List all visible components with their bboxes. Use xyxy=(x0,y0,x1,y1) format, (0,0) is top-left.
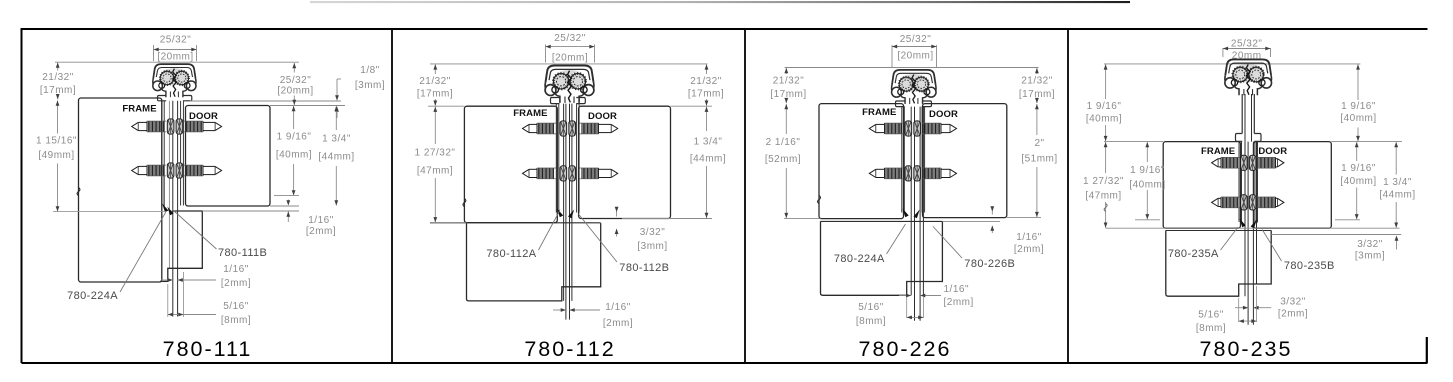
svg-text:DOOR: DOOR xyxy=(189,111,218,122)
P4 block top line xyxy=(1166,230,1271,232)
P4 channel lines xyxy=(1244,142,1246,297)
P4 cap top extension line xyxy=(1104,63,1360,65)
svg-text:2 1/16": 2 1/16" xyxy=(766,137,801,148)
P2 frame leaf xyxy=(555,104,557,213)
svg-text:25/32": 25/32" xyxy=(1231,39,1263,50)
P4 frame plate xyxy=(1163,142,1240,229)
svg-text:[52mm]: [52mm] xyxy=(765,154,801,165)
svg-text:780-235B: 780-235B xyxy=(1284,260,1335,272)
svg-text:3/32": 3/32" xyxy=(1280,297,1306,308)
P1 door bottom extension xyxy=(270,205,299,207)
svg-text:1 27/32": 1 27/32" xyxy=(415,148,456,159)
P3 hinge cap xyxy=(892,70,936,104)
svg-text:1 3/4": 1 3/4" xyxy=(1383,177,1412,188)
svg-text:FRAME: FRAME xyxy=(122,104,156,115)
svg-text:21/32": 21/32" xyxy=(690,76,722,87)
P2 screw row 2 xyxy=(523,166,618,181)
P3 screw row 2 xyxy=(869,166,956,181)
svg-text:780-235A: 780-235A xyxy=(1168,248,1219,260)
svg-text:[2mm]: [2mm] xyxy=(221,278,251,289)
svg-text:[20mm]: [20mm] xyxy=(157,52,193,63)
svg-text:1 9/16": 1 9/16" xyxy=(277,132,312,143)
P4 dim line break mark xyxy=(1104,204,1107,212)
svg-text:1 9/16": 1 9/16" xyxy=(1341,101,1376,112)
P1 hinge cap xyxy=(153,64,196,97)
P4 neck xyxy=(1241,94,1243,134)
svg-text:780-111B: 780-111B xyxy=(218,247,267,259)
P2 lower block xyxy=(467,223,601,301)
svg-text:[2mm]: [2mm] xyxy=(306,226,336,237)
svg-text:[3mm]: [3mm] xyxy=(355,80,385,91)
svg-text:[49mm]: [49mm] xyxy=(38,150,74,161)
svg-text:[44mm]: [44mm] xyxy=(1379,190,1415,201)
P4 hinge cap xyxy=(1225,59,1272,95)
P4 neck ears xyxy=(1236,134,1243,142)
svg-text:3/32": 3/32" xyxy=(640,227,666,238)
svg-text:21/32": 21/32" xyxy=(419,76,451,87)
svg-text:[2mm]: [2mm] xyxy=(1014,244,1044,255)
svg-text:20mm: 20mm xyxy=(1232,51,1262,62)
svg-text:1/16": 1/16" xyxy=(1016,232,1042,243)
P3 leaf end wedges xyxy=(903,209,909,218)
P3 channel lines xyxy=(910,107,912,296)
svg-text:1 9/16": 1 9/16" xyxy=(1341,163,1376,174)
svg-text:[17mm]: [17mm] xyxy=(688,89,724,100)
svg-text:[40mm]: [40mm] xyxy=(276,150,312,161)
svg-text:[40mm]: [40mm] xyxy=(1086,114,1122,125)
svg-text:[44mm]: [44mm] xyxy=(690,154,726,165)
svg-text:[2mm]: [2mm] xyxy=(944,297,974,308)
P4 screw row 2 xyxy=(1212,195,1284,210)
P1 screw row 2 xyxy=(132,163,222,178)
P1 channel lines xyxy=(168,101,170,268)
svg-text:1 9/16": 1 9/16" xyxy=(1130,165,1165,176)
svg-text:25/32": 25/32" xyxy=(280,75,312,86)
svg-text:[40mm]: [40mm] xyxy=(1129,180,1165,191)
svg-text:[17mm]: [17mm] xyxy=(417,89,453,100)
P2 frame edge break mark xyxy=(463,199,466,207)
P1 cap top extension line xyxy=(55,61,299,63)
P3 screw row 1 xyxy=(869,121,956,136)
P3 frame edge break mark xyxy=(818,196,821,204)
column separator 2 xyxy=(744,29,746,363)
svg-text:[8mm]: [8mm] xyxy=(1196,323,1226,334)
svg-text:[40mm]: [40mm] xyxy=(1340,176,1376,187)
svg-text:[20mm]: [20mm] xyxy=(277,86,313,97)
P1 leaf bottom reference line xyxy=(53,211,166,213)
P4 frame leaf xyxy=(1238,142,1240,222)
svg-text:1 27/32": 1 27/32" xyxy=(1083,176,1124,187)
svg-text:[47mm]: [47mm] xyxy=(417,166,453,177)
svg-text:3/32": 3/32" xyxy=(1357,239,1383,250)
svg-text:[3mm]: [3mm] xyxy=(637,241,667,252)
svg-text:21/32": 21/32" xyxy=(1021,76,1053,87)
P4 leaf end wedges xyxy=(1240,219,1246,228)
P1 frame edge break mark xyxy=(77,188,80,196)
P2 cap ears xyxy=(551,98,560,104)
svg-text:1 15/16": 1 15/16" xyxy=(36,136,77,147)
P2 door leaf xyxy=(576,104,578,213)
svg-text:780-112A: 780-112A xyxy=(486,248,536,260)
P2 leaf end wedges xyxy=(557,209,563,218)
svg-text:25/32": 25/32" xyxy=(160,35,192,46)
svg-text:21/32": 21/32" xyxy=(773,76,805,87)
svg-text:[40mm]: [40mm] xyxy=(1340,113,1376,124)
svg-text:1 3/4": 1 3/4" xyxy=(694,137,723,148)
column separator 3 xyxy=(1067,29,1069,363)
svg-text:1/8": 1/8" xyxy=(360,65,379,76)
P2 frame plate xyxy=(464,106,557,222)
svg-text:5/16": 5/16" xyxy=(858,302,884,313)
P4 frame door bottom line xyxy=(1106,227,1400,229)
P3 cap ears xyxy=(896,101,905,107)
P4 lower block xyxy=(1166,230,1271,296)
P1 frame leaf xyxy=(163,164,165,207)
svg-text:[47mm]: [47mm] xyxy=(1085,191,1121,202)
svg-text:5/16": 5/16" xyxy=(1198,310,1224,321)
svg-text:780-226B: 780-226B xyxy=(964,258,1015,270)
svg-text:21/32": 21/32" xyxy=(42,72,74,83)
svg-text:25/32": 25/32" xyxy=(554,33,586,44)
svg-text:1 3/4": 1 3/4" xyxy=(322,134,351,145)
P3 door plate xyxy=(923,104,1007,218)
P1 cap ears xyxy=(158,96,167,101)
svg-text:[2mm]: [2mm] xyxy=(603,318,633,329)
P3 block top line xyxy=(821,220,943,222)
P1 door top extension xyxy=(270,105,345,107)
P3 cap top extension line xyxy=(785,67,1039,69)
P2 hinge cap xyxy=(545,66,594,103)
svg-text:[8mm]: [8mm] xyxy=(221,315,251,326)
P3 lower block xyxy=(821,221,943,295)
svg-text:1/16": 1/16" xyxy=(944,284,970,295)
svg-text:DOOR: DOOR xyxy=(1258,146,1287,157)
P1 screw row 1 xyxy=(132,119,222,134)
P3 frame plate xyxy=(819,104,904,219)
svg-text:780-235: 780-235 xyxy=(1200,337,1293,361)
svg-text:DOOR: DOOR xyxy=(929,109,958,120)
svg-text:780-224A: 780-224A xyxy=(67,290,118,302)
P2 door bottom extension xyxy=(622,218,671,220)
svg-text:1/16": 1/16" xyxy=(223,264,249,275)
P1 ear reference line xyxy=(190,100,341,102)
svg-text:FRAME: FRAME xyxy=(862,107,896,118)
P1 block top extension xyxy=(202,210,299,212)
P1 door leaf xyxy=(180,101,182,206)
P4 door plate xyxy=(1254,142,1332,229)
svg-text:780-224A: 780-224A xyxy=(834,253,885,265)
svg-text:25/32": 25/32" xyxy=(900,34,932,45)
P4 door leaf xyxy=(1254,142,1256,223)
P4 screw row 1 xyxy=(1212,155,1284,170)
P1 door plate xyxy=(186,106,271,207)
svg-text:780-111: 780-111 xyxy=(163,337,253,361)
svg-text:1/16": 1/16" xyxy=(308,215,334,226)
svg-text:FRAME: FRAME xyxy=(513,108,547,119)
svg-text:[3mm]: [3mm] xyxy=(1355,251,1385,262)
P2 door plate xyxy=(579,106,671,218)
P2 channel lines xyxy=(563,104,565,301)
svg-text:780-226: 780-226 xyxy=(859,337,952,361)
column separator 1 xyxy=(391,29,393,363)
P3 door leaf xyxy=(921,107,923,213)
svg-text:DOOR: DOOR xyxy=(588,111,617,122)
P1 frame bottom to step xyxy=(160,280,168,282)
P1 leaf end wedges xyxy=(162,204,168,213)
svg-text:780-112: 780-112 xyxy=(524,337,615,361)
P2 screw row 1 xyxy=(523,121,618,136)
svg-text:1/16": 1/16" xyxy=(605,302,631,313)
svg-text:5/16": 5/16" xyxy=(223,301,249,312)
P2 cap top extension line xyxy=(430,63,708,65)
P3 frame leaf xyxy=(901,107,903,213)
svg-text:[51mm]: [51mm] xyxy=(1021,154,1057,165)
svg-text:[8mm]: [8mm] xyxy=(856,316,886,327)
svg-text:[20mm]: [20mm] xyxy=(897,51,933,62)
svg-text:[17mm]: [17mm] xyxy=(770,89,806,100)
svg-text:FRAME: FRAME xyxy=(1201,146,1235,157)
P1 frame plate xyxy=(79,98,162,282)
svg-text:[44mm]: [44mm] xyxy=(318,152,354,163)
svg-text:2": 2" xyxy=(1034,138,1044,149)
P1 lower insert block xyxy=(168,211,203,282)
svg-text:[20mm]: [20mm] xyxy=(552,53,588,64)
P2 block top line xyxy=(430,222,601,224)
svg-text:780-112B: 780-112B xyxy=(619,262,669,274)
svg-text:[2mm]: [2mm] xyxy=(1278,309,1308,320)
svg-text:1 9/16": 1 9/16" xyxy=(1087,101,1122,112)
